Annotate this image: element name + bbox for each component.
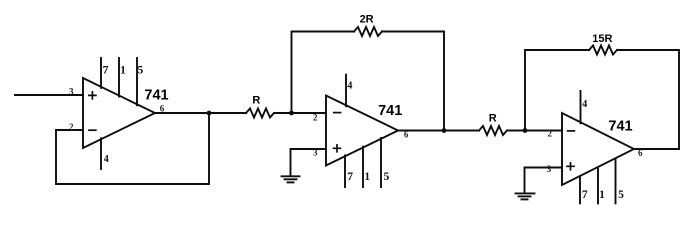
U1 pin 7	[100, 58, 102, 88]
wire: U2 pin 3 to ground	[291, 149, 327, 176]
resistor 15R	[589, 46, 617, 55]
resistor 2R	[354, 27, 382, 36]
wire: 2R feedback loop left/top	[292, 32, 355, 114]
svg-text:2: 2	[69, 122, 74, 132]
svg-text:741: 741	[378, 103, 402, 119]
svg-text:3: 3	[547, 164, 552, 174]
wire: 15R to U3 output	[617, 50, 679, 149]
svg-text:5: 5	[138, 64, 144, 76]
svg-text:6: 6	[404, 130, 409, 140]
wire: U3 pin 3 to ground	[525, 168, 563, 193]
wire: U1 output	[155, 112, 246, 114]
wire: U1 feedback loop (output to pin 2)	[56, 113, 209, 184]
svg-text:7: 7	[347, 171, 353, 183]
node: U2 output junction	[442, 128, 447, 133]
U2 pin 1	[362, 147, 364, 187]
svg-text:R: R	[252, 94, 260, 106]
wire: U2 output	[398, 130, 479, 132]
U3 pin 5	[615, 159, 617, 204]
U2 pin 5	[380, 138, 382, 187]
svg-text:R: R	[489, 112, 497, 124]
svg-text:6: 6	[638, 148, 643, 158]
U3 pin 4	[580, 91, 582, 123]
op-amp U1	[83, 78, 155, 148]
wire: R to U3 pin 2	[507, 130, 562, 132]
svg-text:7: 7	[103, 64, 109, 76]
U3 pin 1	[597, 167, 599, 203]
svg-text:2: 2	[548, 129, 553, 139]
U2 pin 7	[344, 155, 346, 187]
svg-text:3: 3	[69, 86, 74, 96]
ground (U2 pin 3)	[282, 176, 300, 182]
svg-text:4: 4	[582, 99, 587, 110]
svg-text:2: 2	[313, 112, 318, 122]
svg-text:741: 741	[608, 118, 632, 134]
svg-text:741: 741	[144, 88, 168, 104]
node: U3 inverting input junction	[523, 128, 528, 133]
U3 pin 7	[579, 176, 581, 203]
svg-text:15R: 15R	[592, 33, 612, 45]
wire: R to U2 pin 2	[274, 112, 326, 114]
svg-text:2R: 2R	[360, 14, 374, 26]
svg-text:4: 4	[347, 81, 352, 92]
svg-text:1: 1	[599, 189, 605, 201]
svg-text:5: 5	[618, 189, 624, 201]
svg-text:6: 6	[160, 104, 165, 114]
wire: 15R feedback loop left/top	[525, 50, 589, 131]
U1 pin 5	[136, 58, 138, 105]
svg-text:1: 1	[364, 171, 370, 183]
U1 pin 4	[100, 138, 102, 169]
svg-text:7: 7	[582, 189, 588, 201]
U1 pin 1	[118, 58, 120, 97]
U2 pin 4	[345, 75, 347, 107]
svg-text:1: 1	[120, 64, 126, 76]
op-amp U2	[326, 96, 398, 166]
op-amp U3	[562, 113, 634, 185]
resistor R (stage 2 input)	[246, 109, 274, 118]
node: U1 output junction	[207, 111, 212, 116]
node: U2 inverting input junction	[289, 111, 294, 116]
wire: input to U1 pin 3	[15, 94, 83, 96]
wire: 2R to U2 output	[382, 32, 444, 131]
svg-text:4: 4	[104, 154, 109, 165]
svg-text:3: 3	[313, 148, 318, 158]
wire: U3 output	[634, 148, 679, 150]
wire: U1 pin 2 stub	[56, 129, 83, 131]
svg-text:5: 5	[384, 171, 390, 183]
resistor R (stage 3 input)	[479, 126, 507, 135]
ground (U3 pin 3)	[516, 193, 535, 199]
